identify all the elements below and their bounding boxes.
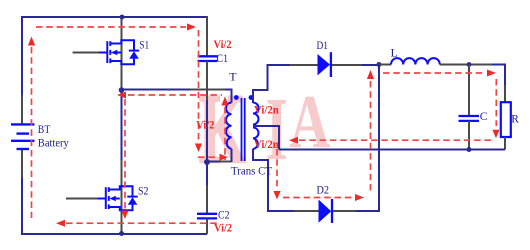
svg-text:Vi/2n: Vi/2n — [254, 139, 279, 151]
wire C column mid navy — [206, 100, 208, 185]
wire output top right corner — [492, 65, 505, 86]
wire S2 drain-source column — [121, 90, 123, 160]
capacitor C output — [459, 116, 480, 121]
svg-text:Trans CT: Trans CT — [231, 163, 273, 177]
S1 gate stub black — [73, 52, 99, 54]
transformer primary polarity dot — [234, 95, 239, 100]
svg-text:D1: D1 — [317, 38, 329, 52]
capacitor C1 — [198, 56, 218, 61]
S2 body diode triangle — [128, 197, 138, 204]
svg-text:C: C — [480, 111, 488, 123]
svg-text:D2: D2 — [317, 182, 330, 196]
wire left rail lower black segment — [21, 149, 23, 178]
wire D1 cathode black — [332, 64, 362, 66]
transistor S2 — [98, 186, 138, 210]
wire node A to primary top — [122, 89, 191, 91]
node top-rail junction — [120, 15, 125, 20]
svg-text:T: T — [229, 70, 237, 84]
red arrow up (left rail) — [28, 37, 35, 46]
node C bottom junction — [467, 147, 472, 152]
transistor S1 — [99, 40, 139, 64]
svg-text:Vi/2: Vi/2 — [196, 119, 214, 131]
wire node B to primary bottom black part — [220, 161, 232, 163]
svg-text:L: L — [391, 45, 398, 59]
svg-text:C1: C1 — [217, 51, 229, 65]
red arrow right (top rail) — [187, 23, 196, 30]
transformer secondary winding bottom — [253, 128, 258, 150]
S1 body diode triangle — [129, 51, 139, 58]
wire C column mid black — [206, 61, 208, 100]
wire node B to primary bottom — [207, 161, 220, 163]
wire C column above C2 black — [206, 185, 208, 214]
S2 gate stub black — [66, 198, 98, 200]
battery BT — [11, 124, 35, 149]
svg-text:C2: C2 — [218, 207, 230, 221]
wire S1 drain (black vertical) — [121, 17, 123, 90]
red arrow up (to node X) — [367, 70, 374, 79]
red arrow right (to primary bottom) — [220, 154, 229, 161]
wire secondary bottom staircase — [253, 149, 294, 211]
wire D1 cathode navy — [362, 64, 379, 66]
wire primary top corner — [225, 90, 232, 103]
svg-text:Battery: Battery — [38, 136, 69, 150]
red arrow down (through S2) — [121, 211, 128, 220]
wire center tap — [253, 126, 279, 150]
wire D2 cathode black — [333, 210, 356, 212]
wire C output bottom — [468, 121, 470, 150]
battery BT wires — [21, 100, 23, 124]
svg-text:A: A — [289, 79, 330, 164]
watermark KIA — [199, 73, 330, 183]
wire C column top (black) — [206, 16, 208, 56]
red arrow down (through R) — [492, 130, 499, 139]
svg-text:Vi/2n: Vi/2n — [254, 105, 279, 117]
wire output return — [279, 149, 505, 151]
capacitor C2 — [197, 214, 217, 219]
svg-text:BT: BT — [38, 122, 51, 136]
transformer secondary polarity dot — [249, 95, 254, 100]
diode D2 — [319, 200, 332, 223]
wire secondary top staircase — [253, 65, 290, 103]
red arrow left (return line) — [289, 137, 298, 144]
wire right column upper black — [504, 85, 506, 103]
wire primary bottom stub — [231, 149, 233, 162]
red arrow left (bottom rail) — [56, 220, 65, 227]
transformer secondary winding top — [253, 103, 259, 125]
wire C output top — [468, 65, 470, 117]
wire left rail lower — [21, 178, 23, 235]
wire D2 cathode to node X — [356, 65, 379, 212]
svg-text:Vi/2: Vi/2 — [214, 39, 232, 51]
S1 source arrow — [111, 50, 118, 56]
wire S2 column black — [121, 160, 123, 234]
wire to D2 anode black — [294, 210, 319, 212]
wire top rail — [22, 16, 207, 18]
transformer T primary winding — [226, 103, 232, 149]
wire left rail upper — [21, 16, 23, 95]
red arrow down (to D2 loop) — [273, 191, 280, 200]
wire bottom rail — [21, 233, 207, 235]
svg-text:Vi/2: Vi/2 — [214, 222, 232, 234]
inductor L — [391, 58, 440, 64]
wire to D1 anode black — [290, 64, 318, 66]
red arrow left (node A) — [117, 92, 126, 99]
red arrow up (primary) — [221, 97, 228, 106]
S2 source arrow — [109, 196, 116, 202]
red arrow right (output top) — [487, 70, 496, 77]
red arrow down (C1 column) — [195, 144, 202, 153]
node bottom-rail junction — [119, 231, 124, 236]
transformer core — [242, 98, 245, 161]
svg-text:S2: S2 — [138, 184, 149, 198]
svg-text:S1: S1 — [139, 38, 149, 52]
wire left rail upper black segment — [21, 95, 23, 124]
wire node A to primary top black part — [190, 89, 225, 91]
red dashed loop left vertical — [32, 27, 497, 223]
diode D1 — [318, 54, 331, 75]
red arrow right (above D2) — [355, 194, 364, 201]
wire C column below C2 black — [206, 219, 208, 235]
node B (C1/C2 midpoint) — [204, 159, 210, 165]
node Y (C branch) — [467, 62, 472, 67]
wire node X to L — [379, 64, 391, 66]
node A (S1/S2 midpoint) — [119, 87, 125, 93]
wire L to output black — [440, 64, 492, 66]
resistor R — [501, 102, 511, 137]
wire right column lower black — [504, 137, 506, 150]
node X (D1/D2/L junction) — [377, 62, 382, 67]
svg-text:R: R — [511, 113, 519, 125]
